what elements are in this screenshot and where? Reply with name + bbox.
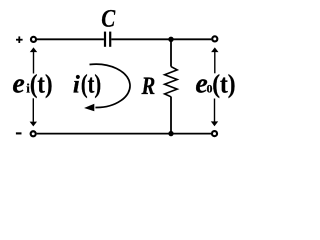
svg-text:(t): (t) [30, 70, 53, 99]
svg-text:C: C [101, 5, 115, 32]
svg-text:i: i [73, 71, 80, 98]
svg-text:R: R [141, 73, 156, 100]
svg-text:(t): (t) [81, 69, 101, 98]
svg-text:(t): (t) [212, 70, 235, 99]
svg-text:e: e [12, 69, 24, 100]
